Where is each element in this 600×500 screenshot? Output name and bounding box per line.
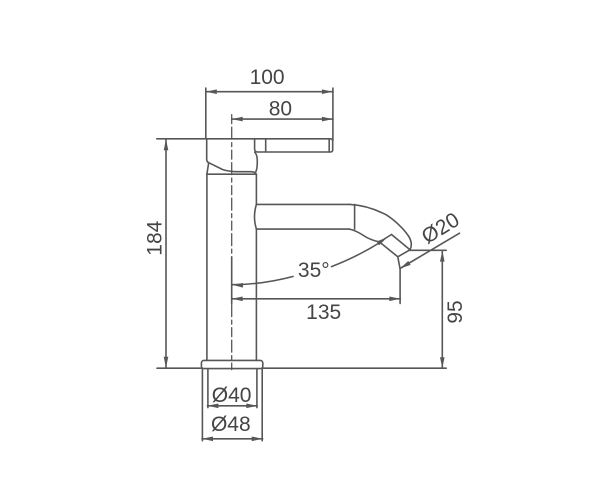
- dim 135 line: [232, 298, 401, 300]
- svg-text:Ø40: Ø40: [212, 384, 252, 407]
- base flange: [201, 360, 262, 368]
- dia 40 ext right: [256, 369, 258, 407]
- body right edge upper: [255, 174, 257, 204]
- dim 100 arrow right: [322, 89, 333, 94]
- angle 35 arrow left: [232, 282, 243, 287]
- svg-text:184: 184: [143, 220, 166, 255]
- body right edge lower: [255, 229, 257, 360]
- dim 95 arrow top: [440, 251, 445, 262]
- svg-text:100: 100: [250, 66, 285, 89]
- svg-text:Ø48: Ø48: [211, 413, 251, 436]
- body left edge: [206, 174, 208, 360]
- aerator top edge: [392, 235, 411, 250]
- dim 95 top ref line: [409, 249, 446, 251]
- handle skirt left tip: [207, 163, 209, 174]
- spout root fillet: [255, 204, 257, 229]
- dia 20 leader arrow: [399, 261, 411, 271]
- dim 184 bottom ref line: [157, 367, 201, 369]
- dim 135 arrow left: [232, 297, 243, 302]
- dim 184 arrow bottom: [164, 357, 169, 368]
- dia 20 leader: [400, 233, 460, 268]
- spout inner bend: [350, 229, 380, 242]
- dim 135 arrow right: [389, 297, 400, 302]
- spout bottom line: [256, 228, 349, 230]
- dim 184 top ref line: [157, 138, 207, 140]
- aerator bottom edge: [380, 242, 398, 257]
- dim 80 arrow left: [232, 117, 243, 122]
- handle skirt: [207, 139, 256, 174]
- dia 48 dim line: [202, 438, 263, 440]
- aerator seam: [380, 235, 392, 243]
- dim 184 line: [165, 139, 167, 367]
- lever seam right: [328, 139, 330, 152]
- aerator end face: [398, 250, 410, 257]
- dim 100 arrow left: [206, 89, 217, 94]
- aerator face lower lip: [398, 257, 400, 269]
- dim 184 arrow top: [164, 139, 169, 150]
- lever seam left: [265, 139, 267, 152]
- angle 35 arc left: [232, 277, 293, 285]
- dim 135 right ext: [399, 270, 401, 304]
- dim 135 left ext (solid over centerline): [231, 257, 233, 304]
- dim 95 line: [441, 251, 443, 369]
- svg-text:Ø20: Ø20: [418, 208, 464, 248]
- spout outer bend: [350, 204, 411, 249]
- angle 35 arrow right: [377, 236, 389, 246]
- dia 48 ext right: [261, 369, 263, 441]
- dia 40 arrow right: [246, 404, 257, 409]
- dia 48 ext left: [201, 369, 203, 441]
- svg-text:35°: 35°: [298, 259, 330, 282]
- dim 80 line: [232, 118, 333, 120]
- body collar top: [207, 173, 257, 175]
- lever bar: [207, 139, 333, 152]
- dia 40 arrow left: [207, 404, 218, 409]
- handle cap right edge: [255, 152, 257, 172]
- svg-text:80: 80: [269, 97, 292, 120]
- spout top line: [256, 203, 350, 205]
- svg-text:135: 135: [306, 301, 341, 324]
- angle 35 arc right: [332, 241, 384, 267]
- dia 48 arrow right: [252, 437, 263, 442]
- dim 80 arrow right: [322, 117, 333, 122]
- baseline ref right: [263, 367, 446, 369]
- dim 100 ext right: [332, 88, 334, 141]
- dim 100 line: [206, 91, 333, 93]
- centerline: [231, 115, 233, 370]
- dim 100 ext left: [205, 88, 207, 138]
- dia 40 ext left: [207, 369, 209, 407]
- svg-text:95: 95: [444, 300, 467, 323]
- dia 40 dim line: [207, 405, 257, 407]
- dia 48 arrow left: [202, 437, 213, 442]
- dim 95 arrow bottom: [440, 357, 445, 368]
- spout seam: [354, 204, 356, 229]
